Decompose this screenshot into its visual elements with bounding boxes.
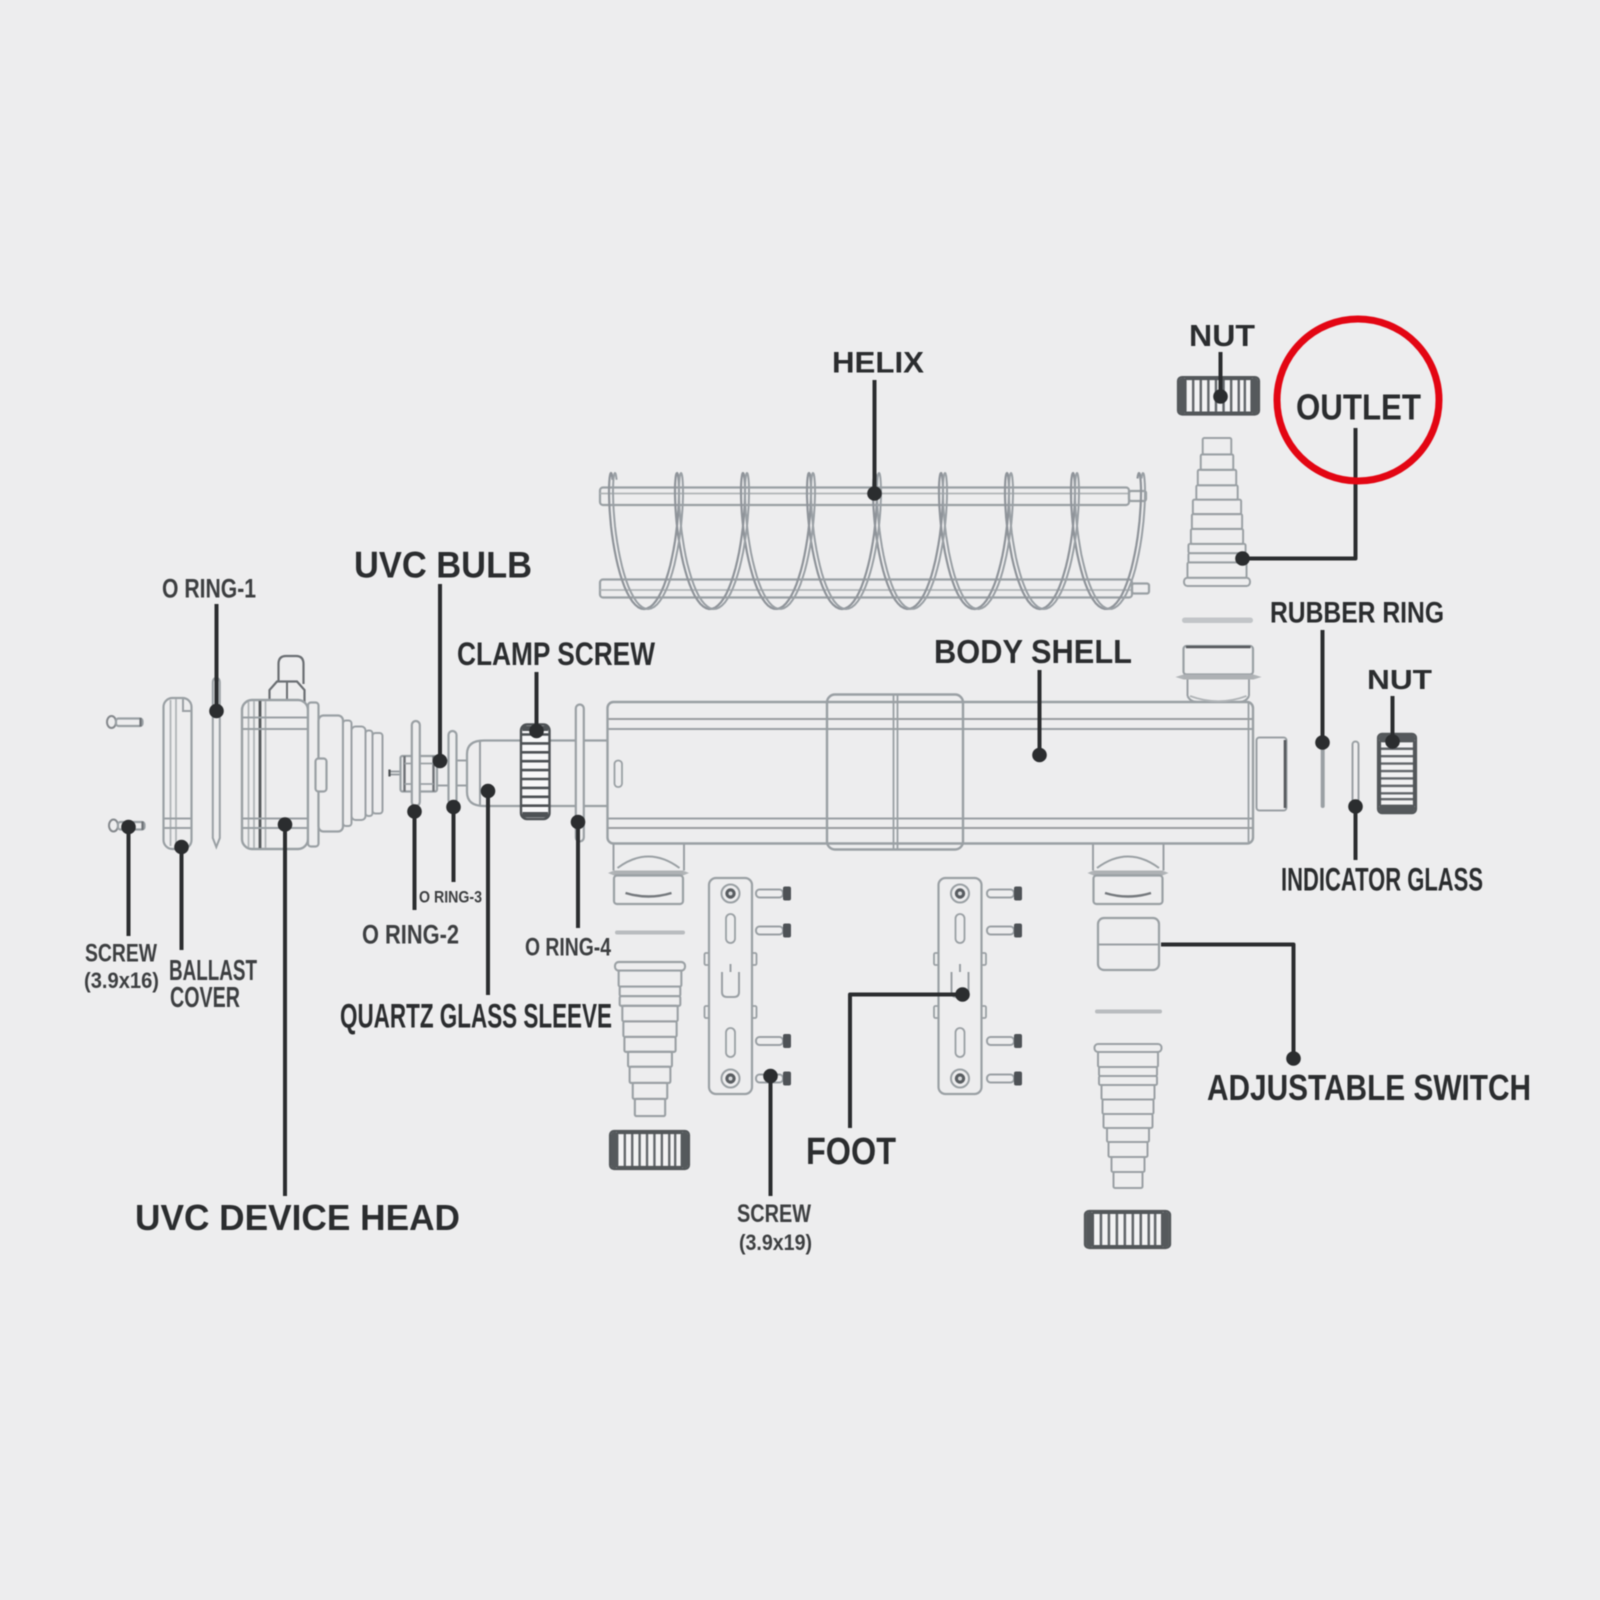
uvc bulb pin <box>390 770 401 777</box>
foot 2 <box>934 878 986 1094</box>
svg-text:UVC DEVICE HEAD: UVC DEVICE HEAD <box>135 1197 460 1238</box>
screw (3.9x19) #3 (foot 1) <box>756 1034 791 1048</box>
o-ring 2 <box>412 721 420 806</box>
svg-text:CLAMP SCREW: CLAMP SCREW <box>457 636 656 672</box>
inlet connector <box>615 962 685 1116</box>
switch port (bottom right) <box>1088 844 1169 904</box>
o ring-3 label line <box>446 800 461 882</box>
svg-text:(3.9x19): (3.9x19) <box>739 1230 812 1255</box>
foot label line <box>850 987 970 1128</box>
svg-text:BODY SHELL: BODY SHELL <box>934 633 1132 670</box>
o-ring 1 <box>213 678 220 847</box>
svg-text:QUARTZ GLASS SLEEVE: QUARTZ GLASS SLEEVE <box>340 998 612 1036</box>
red highlight circle around OUTLET <box>1277 319 1439 481</box>
o-ring 4 <box>576 705 584 842</box>
screw (3.9x19) #1 (foot 1) <box>756 887 791 901</box>
uvc device head rings <box>319 716 383 832</box>
adjustable switch label line <box>1161 945 1301 1066</box>
quartz glass sleeve label line <box>481 784 496 995</box>
svg-text:OUTLET: OUTLET <box>1296 387 1421 428</box>
svg-text:ADJUSTABLE SWITCH: ADJUSTABLE SWITCH <box>1207 1067 1531 1108</box>
svg-text:(3.9x16): (3.9x16) <box>84 968 159 993</box>
uvc bulb label line <box>433 584 448 768</box>
svg-text:O RING-4: O RING-4 <box>525 934 611 962</box>
rubber ring label line <box>1315 630 1330 750</box>
rubber ring (left connector) <box>615 931 685 935</box>
helix bottom rod <box>600 580 1149 598</box>
nut (bottom left) <box>610 1131 689 1169</box>
uvc device head cap <box>279 656 304 684</box>
uvc device head clamp tab <box>316 759 327 792</box>
helix spiral <box>609 473 1145 609</box>
ballast cover label line <box>174 840 189 950</box>
nut (top) label line <box>1213 352 1228 404</box>
rubber ring (outlet, horizontal) <box>1182 618 1253 624</box>
screw (3.9x19) #4 (foot 1) <box>756 1072 791 1086</box>
body shell right end tab <box>1257 738 1287 811</box>
svg-text:O RING-3: O RING-3 <box>419 888 482 907</box>
screw (3.9x16) lower <box>109 820 145 832</box>
svg-text:SCREW: SCREW <box>85 940 157 968</box>
foot 1 <box>705 878 757 1094</box>
indicator glass label line <box>1348 799 1363 860</box>
screw (3.9x19) #7 (foot 2) <box>987 1034 1022 1048</box>
rubber ring (right port) <box>1321 744 1325 808</box>
screw (3.9x16) upper <box>107 716 143 728</box>
screw (3.9x16) label line <box>121 820 136 936</box>
uvc device head body <box>242 700 308 849</box>
adjustable switch connector <box>1095 1044 1162 1188</box>
ballast cover <box>164 698 192 849</box>
inlet port (bottom left) <box>608 844 689 904</box>
uvc device head label line <box>278 817 293 1196</box>
svg-text:RUBBER RING: RUBBER RING <box>1270 597 1444 630</box>
svg-text:NUT: NUT <box>1367 664 1432 695</box>
outlet port (top) <box>1176 646 1262 702</box>
clamp screw label line <box>529 672 544 738</box>
uvc device head flange <box>308 703 319 847</box>
svg-text:O RING-1: O RING-1 <box>162 574 256 604</box>
uvc bulb base <box>401 756 438 792</box>
indicator glass <box>1353 742 1359 805</box>
clamp screw <box>521 725 550 820</box>
svg-text:HELIX: HELIX <box>832 347 924 380</box>
helix top rod <box>600 488 1146 506</box>
svg-text:UVC BULB: UVC BULB <box>354 545 532 586</box>
nut (top, for outlet) <box>1178 377 1259 415</box>
svg-text:NUT: NUT <box>1189 318 1255 353</box>
svg-text:COVER: COVER <box>170 982 240 1014</box>
quartz glass sleeve <box>467 741 607 807</box>
rubber ring (right connector) <box>1095 1010 1162 1014</box>
body shell middle band <box>827 695 963 850</box>
outlet connector <box>1184 438 1250 586</box>
o-ring 3 <box>449 731 457 804</box>
body shell label line <box>1032 670 1047 762</box>
nut (right) <box>1378 734 1416 813</box>
nut (right) label line <box>1385 696 1400 749</box>
bulb neck lines <box>437 761 468 786</box>
screw (3.9x19) #8 (foot 2) <box>987 1072 1022 1086</box>
outlet label line <box>1235 428 1355 566</box>
adjustable switch box <box>1098 918 1159 970</box>
uvc device head hex nut <box>270 682 305 703</box>
svg-text:O RING-2: O RING-2 <box>362 920 459 950</box>
o ring-2 label line <box>407 804 422 910</box>
svg-text:FOOT: FOOT <box>806 1131 896 1173</box>
screw (3.9x19) label line <box>763 1069 778 1196</box>
o ring-1 label line <box>209 604 224 718</box>
body shell slot <box>615 761 623 788</box>
svg-text:SCREW: SCREW <box>737 1200 811 1228</box>
helix label line <box>867 380 882 501</box>
screw (3.9x19) #2 (foot 1) <box>756 924 791 938</box>
body shell <box>608 702 1254 844</box>
nut (bottom right) <box>1085 1211 1170 1248</box>
o ring-4 label line <box>571 815 586 928</box>
screw (3.9x19) #5 (foot 2) <box>987 887 1022 901</box>
screw (3.9x19) #6 (foot 2) <box>987 924 1022 938</box>
svg-text:INDICATOR GLASS: INDICATOR GLASS <box>1281 862 1483 898</box>
